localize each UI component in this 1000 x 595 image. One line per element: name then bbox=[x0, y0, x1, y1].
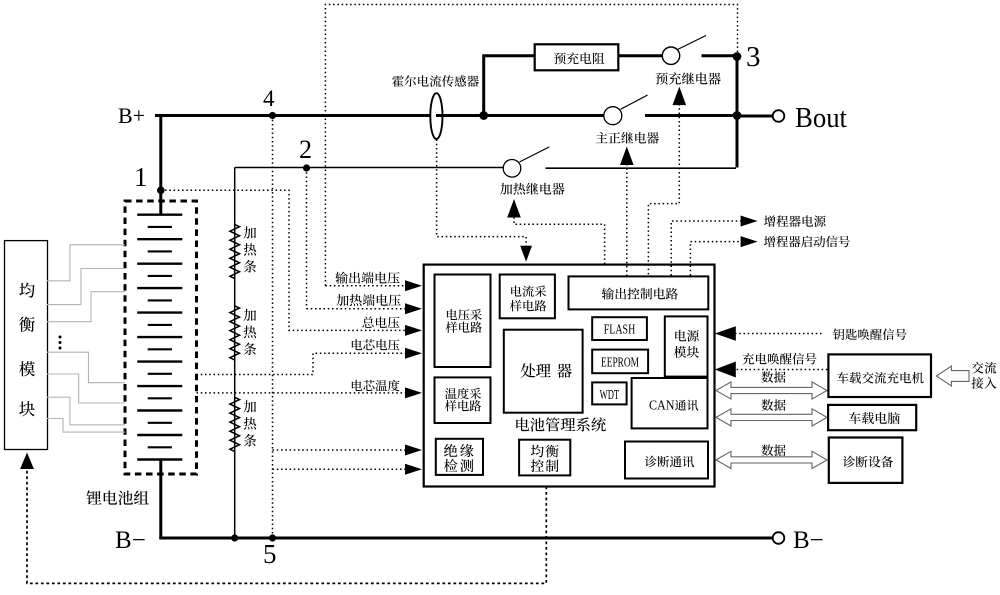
svg-text:1: 1 bbox=[134, 162, 148, 192]
wire precharge branch up bbox=[484, 56, 536, 117]
wire dotted 钥匙唤醒信号 bbox=[735, 333, 824, 335]
relay contact 加热继电器 bbox=[503, 160, 521, 178]
label 车载交流充电机 bbox=[837, 372, 924, 384]
arrow up to 加热继电器 bbox=[507, 199, 521, 218]
wire precharge resistor to relay bbox=[618, 54, 663, 57]
wire dotted insulation branch 2 bbox=[273, 468, 409, 470]
hall current sensor ellipse bbox=[430, 93, 442, 139]
relay lever 主正 bbox=[621, 95, 648, 109]
label 增程器启动信号 bbox=[764, 236, 850, 248]
wire dotted 输出端电压 line bbox=[325, 285, 408, 287]
label 车载电脑 bbox=[849, 412, 900, 424]
wire to Bout terminal bbox=[736, 115, 773, 118]
svg-text:WDT: WDT bbox=[600, 387, 620, 402]
label 绝缘检测 bbox=[444, 444, 474, 457]
label 温度采样电路 bbox=[445, 388, 481, 400]
wire main positive after relay bbox=[645, 114, 737, 117]
arrow into BMS insulation 2 bbox=[405, 464, 422, 475]
wire balance tap 7 bbox=[47, 419, 125, 433]
arrow into BMS 电芯温度 bbox=[405, 387, 422, 398]
block WDT bbox=[592, 382, 626, 404]
label 电芯温度 bbox=[352, 380, 400, 392]
svg-text:FLASH: FLASH bbox=[604, 322, 636, 337]
battery cells plates bbox=[137, 213, 182, 215]
wire main positive through sensor bbox=[436, 114, 604, 117]
block CAN通讯 bbox=[632, 378, 708, 428]
arrow 增程器电源 bbox=[741, 216, 758, 227]
label 加热条 R2 bbox=[244, 309, 257, 321]
svg-text:CAN: CAN bbox=[649, 399, 675, 414]
block 均衡控制 bbox=[519, 440, 570, 476]
connector data arrow 1 bbox=[716, 382, 827, 399]
wire 2 from resistor chain to heating relay bbox=[235, 167, 504, 169]
relay contact 主正继电器 bbox=[604, 107, 622, 125]
label 均衡控制 bbox=[531, 445, 559, 458]
resistor heating strip R1 bbox=[230, 224, 240, 278]
module box 电池管理系统 BMS bbox=[424, 265, 715, 487]
label 数据 2 bbox=[761, 399, 785, 411]
wire balance tap 3 bbox=[47, 292, 125, 322]
node junction precharge branch bbox=[479, 111, 488, 120]
resistor heating strip R3 bbox=[230, 397, 240, 451]
label 预充继电器 bbox=[656, 72, 721, 84]
wire precharge relay to node 3 bbox=[702, 54, 739, 57]
wire dotted node2 down bbox=[306, 168, 308, 309]
label 数据 1 bbox=[761, 371, 785, 383]
arrow left 钥匙唤醒 bbox=[715, 326, 736, 340]
component box 预充电阻 bbox=[535, 44, 619, 70]
label 增程器电源 bbox=[764, 215, 826, 227]
block EEPROM bbox=[592, 350, 648, 374]
block 绝缘检测 bbox=[436, 439, 483, 475]
label 总电压 bbox=[362, 316, 399, 328]
wire balance tap 6 bbox=[47, 397, 125, 425]
device box 车载交流充电机 bbox=[828, 354, 931, 397]
svg-text:B−: B− bbox=[793, 527, 824, 554]
relay lever 预充 bbox=[678, 36, 707, 50]
label 加热端电压 bbox=[336, 294, 400, 306]
device box 诊断设备 bbox=[829, 438, 903, 483]
svg-text:3: 3 bbox=[746, 41, 761, 73]
block 诊断通讯 bbox=[625, 442, 708, 479]
node bus-main junction bbox=[733, 111, 742, 120]
arrow 增程器启动信号 bbox=[741, 236, 758, 247]
svg-text:B+: B+ bbox=[118, 103, 145, 128]
label 处理器 bbox=[521, 363, 572, 377]
node 2 bbox=[303, 164, 310, 171]
wire dotted 电芯电压 line bbox=[197, 353, 409, 374]
block 电流采样电路 bbox=[500, 275, 555, 319]
wire balance tap 5 bbox=[47, 374, 125, 403]
svg-text:5: 5 bbox=[263, 539, 277, 569]
arrow down into BMS current sense bbox=[520, 246, 532, 262]
arrow into BMS 电芯电压 bbox=[405, 348, 422, 359]
connector data arrow 3 bbox=[716, 451, 827, 468]
relay lever 加热 bbox=[520, 147, 550, 162]
label 电芯电压 bbox=[352, 339, 400, 350]
wire dotted 充电唤醒信号 bbox=[737, 369, 829, 371]
wire battery negative terminal bbox=[159, 459, 162, 539]
arrow up into 均衡模块 bbox=[20, 453, 34, 470]
wire balance tap 4 bbox=[47, 352, 125, 383]
label 主正继电器 bbox=[596, 132, 659, 144]
wire resistor chain vertical bbox=[234, 168, 236, 539]
label battery pack 锂电池组 bbox=[86, 490, 148, 505]
connector AC input hollow arrow bbox=[937, 366, 970, 386]
wire dotted 总电压 line bbox=[161, 190, 408, 330]
svg-text:Bout: Bout bbox=[795, 103, 847, 134]
wire dotted insulation branch 1 bbox=[273, 449, 409, 451]
wire dotted 加热 control bbox=[514, 217, 605, 263]
svg-text:2: 2 bbox=[299, 135, 312, 164]
terminal Bout bbox=[773, 110, 785, 122]
wire dotted 主正 control bbox=[626, 164, 628, 276]
label 霍尔电流传感器 bbox=[392, 75, 479, 87]
wire right vertical bus bbox=[736, 55, 739, 168]
label 加热继电器 bbox=[500, 183, 564, 195]
block FLASH bbox=[592, 317, 647, 340]
label 电池管理系统 bbox=[516, 417, 606, 431]
node 4 bbox=[269, 112, 276, 119]
wire balance tap 2 bbox=[47, 269, 125, 305]
label 钥匙唤醒信号 bbox=[833, 328, 907, 340]
arrow left 充电唤醒 bbox=[715, 362, 736, 378]
node resistor chain bottom bbox=[231, 534, 238, 541]
label 预充电阻 bbox=[554, 52, 604, 64]
wire dotted 增程器电源 line bbox=[671, 221, 742, 276]
terminal B- right bbox=[773, 532, 785, 544]
wire dotted hall sensor signal bbox=[437, 140, 526, 248]
block 电源模块 bbox=[665, 316, 708, 376]
wire dotted output-voltage tap loop bbox=[325, 5, 737, 286]
node 3 bbox=[733, 52, 742, 61]
label 电压采样电路 bbox=[447, 309, 482, 320]
label 充电唤醒信号 bbox=[742, 353, 816, 365]
wire dotted 增程器启动信号 line bbox=[690, 242, 742, 276]
label 交流接入 bbox=[972, 362, 997, 374]
wire dashed balance control link bbox=[27, 470, 546, 583]
wire 2 heating line right part bbox=[546, 167, 737, 169]
arrow up to 主正继电器 bbox=[620, 147, 634, 166]
label 电源模块 bbox=[675, 330, 699, 342]
wire balance tap 1 bbox=[47, 245, 125, 281]
label 电流采样电路 bbox=[511, 285, 546, 297]
label 输出端电压 bbox=[335, 272, 399, 284]
node 1 bbox=[157, 187, 165, 195]
block 处理器 bbox=[504, 330, 583, 413]
label 诊断设备 bbox=[843, 456, 893, 468]
wire dotted 加热端电压 line bbox=[307, 308, 409, 310]
module box 均衡模块 bbox=[5, 241, 48, 450]
relay contact 预充继电器 bbox=[662, 47, 679, 64]
arrow into BMS 总电压 bbox=[405, 325, 422, 336]
label 均衡模块 vertical bbox=[19, 283, 35, 298]
wire battery positive terminal bbox=[159, 116, 162, 216]
device box 车载电脑 bbox=[828, 405, 916, 430]
arrow up to 预充继电器 bbox=[673, 87, 687, 106]
node B+ main positive wire bbox=[155, 114, 433, 117]
ellipsis dots bbox=[59, 336, 62, 339]
wire B- main negative bbox=[159, 537, 772, 540]
wire dotted insulation vertical node4-node5 bbox=[272, 116, 274, 539]
arrow into BMS 输出端电压 bbox=[405, 280, 422, 291]
node 5 bbox=[269, 534, 276, 541]
wire dotted 电芯温度 line bbox=[197, 392, 409, 394]
arrow into BMS insulation 1 bbox=[405, 445, 422, 456]
connector data arrow 2 bbox=[716, 409, 827, 426]
resistor heating strip R2 bbox=[230, 306, 240, 360]
battery pack dashed enclosure bbox=[125, 201, 197, 474]
label 加热条 R3 bbox=[244, 400, 257, 412]
label 输出控制电路 bbox=[602, 288, 678, 300]
label 诊断通讯 bbox=[645, 456, 694, 468]
block 温度采样电路 bbox=[435, 377, 491, 423]
block 电压采样电路 bbox=[435, 275, 491, 368]
label 加热条 R1 bbox=[244, 226, 257, 238]
svg-text:B−: B− bbox=[115, 527, 146, 554]
label 数据 3 bbox=[761, 444, 785, 456]
svg-text:4: 4 bbox=[263, 86, 275, 111]
wire dotted 预充 control bbox=[648, 104, 679, 276]
arrow into BMS 加热端电压 bbox=[405, 303, 422, 314]
block 输出控制电路 bbox=[569, 276, 709, 309]
svg-text:EEPROM: EEPROM bbox=[601, 355, 639, 370]
